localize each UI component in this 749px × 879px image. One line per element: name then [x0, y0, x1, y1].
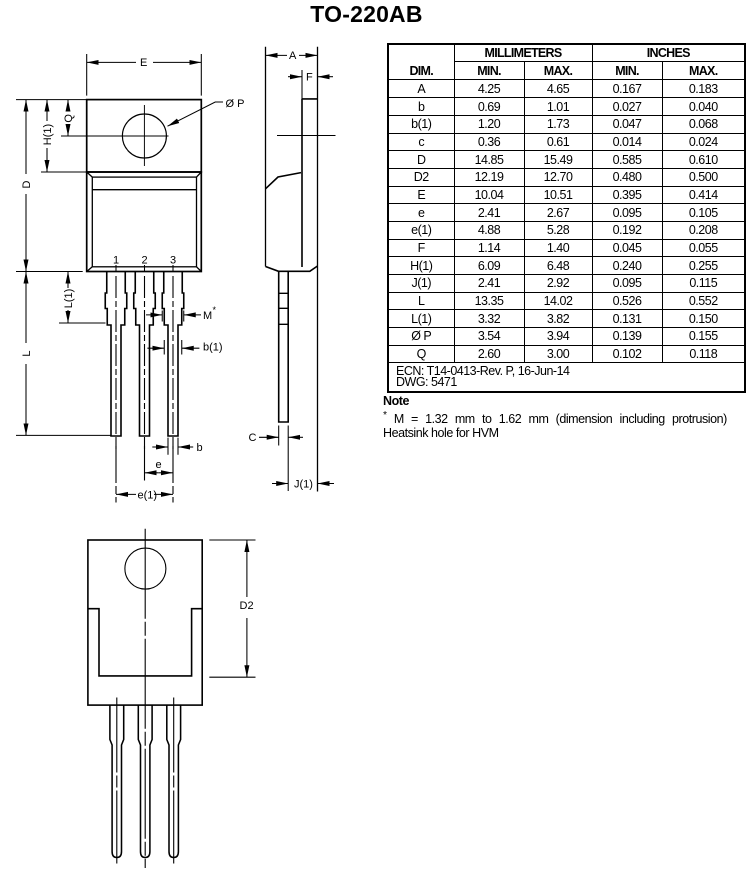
svg-text:F: F — [306, 71, 313, 83]
svg-text:D: D — [21, 180, 33, 188]
pin number labels — [113, 255, 176, 267]
svg-text:*: * — [213, 305, 217, 315]
svg-text:e: e — [156, 459, 162, 471]
svg-text:3: 3 — [170, 255, 176, 267]
dimension H(1) — [46, 100, 48, 121]
front body outer rectangle — [87, 172, 202, 272]
pin 1 lower center line — [115, 443, 117, 503]
svg-text:2: 2 — [141, 255, 147, 267]
pin 2 lower center line — [144, 443, 146, 481]
side pin outline — [279, 271, 289, 422]
dimension D2 — [246, 540, 248, 597]
bottom pin 2 — [138, 705, 152, 857]
side body front face and A extension — [265, 47, 267, 267]
svg-text:H(1): H(1) — [42, 124, 54, 145]
dimension L(1) — [67, 272, 69, 289]
pin 1 center line — [115, 276, 117, 449]
dimension C — [259, 436, 279, 438]
svg-text:L: L — [21, 350, 33, 356]
hole crosshair — [61, 105, 169, 166]
bottom pin 3 — [167, 705, 181, 857]
svg-text:A: A — [289, 50, 297, 62]
mounting hole circle — [122, 114, 166, 158]
side pin tick marks — [279, 293, 289, 324]
dimension L — [25, 272, 27, 344]
svg-text:Q: Q — [63, 114, 75, 123]
pin 2 center line — [144, 276, 146, 449]
svg-text:C: C — [249, 432, 257, 444]
dimension M — [146, 314, 162, 316]
pin 3 lower center line — [172, 443, 174, 503]
side tab outline — [302, 99, 318, 267]
dimension b — [168, 438, 178, 455]
dimension D2 extension lines — [209, 540, 255, 677]
svg-text:J(1): J(1) — [294, 478, 313, 490]
body inner step line — [92, 189, 196, 191]
title TO-220AB — [0, 1, 741, 28]
dimension F — [301, 70, 303, 99]
dimension A — [266, 54, 288, 56]
svg-text:D2: D2 — [240, 600, 254, 612]
bottom pin 3 center line — [173, 698, 175, 864]
bottom view center line — [144, 529, 146, 868]
dimension J(1) — [272, 483, 288, 485]
bottom pin 1 center line — [116, 698, 118, 864]
front body inner rectangle — [87, 172, 202, 272]
dimension e — [145, 472, 159, 474]
dimension E — [87, 54, 202, 96]
dimension b(1) — [147, 347, 164, 349]
svg-text:e(1): e(1) — [138, 489, 158, 501]
bottom view hole circle — [125, 548, 166, 589]
pin 3 outline — [162, 272, 184, 436]
pin 1 outline — [105, 272, 127, 436]
svg-text:Ø P: Ø P — [226, 98, 245, 110]
svg-text:L(1): L(1) — [63, 289, 75, 309]
bottom view U slot — [88, 609, 202, 676]
svg-text:b(1): b(1) — [203, 342, 223, 354]
dimension e(1) — [116, 493, 136, 495]
FRONT VIEW — [87, 100, 202, 272]
side hole center line — [277, 135, 336, 137]
side right face long extension — [317, 47, 319, 492]
svg-text:M: M — [203, 310, 212, 322]
body chamfer lines — [87, 172, 202, 272]
side body chamfer — [266, 173, 302, 189]
svg-text:b: b — [197, 442, 203, 454]
dimensions table — [387, 43, 746, 393]
side body bottom — [266, 266, 318, 271]
note block — [383, 394, 745, 441]
bottom pin 1 — [110, 705, 124, 857]
left extension lines — [16, 100, 111, 436]
svg-text:E: E — [140, 57, 147, 69]
front tab rectangle — [87, 100, 202, 172]
bottom view body outline — [88, 540, 202, 705]
pin 2 outline — [134, 272, 156, 436]
label P leader — [168, 102, 224, 126]
dimension D — [25, 100, 27, 174]
side pin extension lines — [279, 426, 289, 492]
pin 3 center line — [172, 276, 174, 449]
svg-text:1: 1 — [113, 255, 119, 267]
label P text — [226, 98, 245, 110]
dimension Q — [67, 100, 69, 111]
pin number tick lines — [116, 265, 173, 272]
